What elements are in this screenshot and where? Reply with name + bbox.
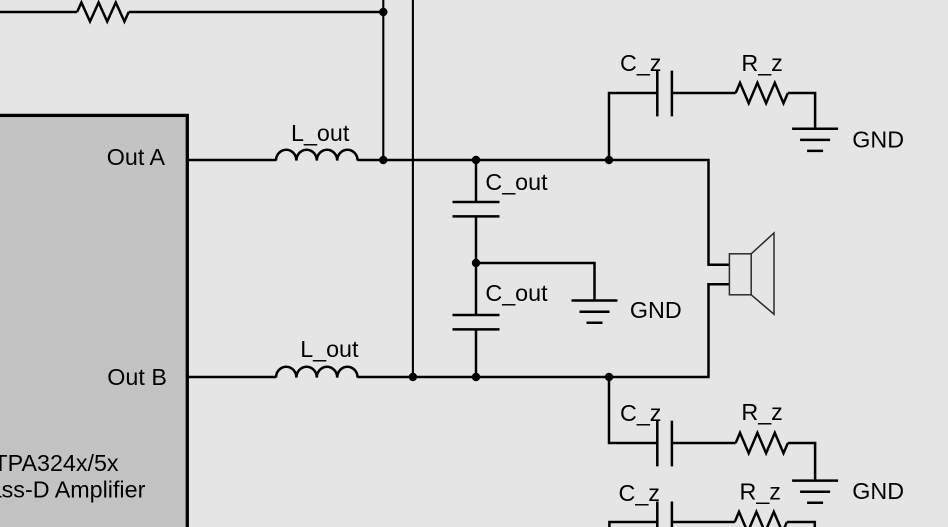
svg-text:Class-D Amplifier: Class-D Amplifier xyxy=(0,477,146,503)
svg-text:C_out: C_out xyxy=(485,169,548,195)
junction node: Out A / Zobel A xyxy=(605,156,613,164)
wire: Zobel B drop from Out B net xyxy=(609,377,656,443)
capacitor C_z (Zobel A) xyxy=(657,71,672,117)
resistor R_z (Zobel C, cropped) xyxy=(735,512,787,527)
svg-text:L_out: L_out xyxy=(300,336,359,362)
wire: top net to junction xyxy=(129,11,384,14)
resistor R_z (Zobel A) xyxy=(736,83,788,103)
junction node: C_out midpoint xyxy=(472,259,480,267)
junction node: Out A / C_out xyxy=(472,156,480,164)
ground (C_out midpoint) xyxy=(572,301,618,323)
wire: R_z to ground (Zobel A) xyxy=(788,93,815,129)
capacitor C_out (lower) xyxy=(453,315,500,329)
svg-text:R_z: R_z xyxy=(741,50,782,76)
svg-text:GND: GND xyxy=(852,127,904,153)
wire: vertical drop from top node to Out A net xyxy=(382,0,384,160)
svg-text:R_z: R_z xyxy=(740,479,781,505)
wire: Zobel C feed stub (second channel, cropped) xyxy=(609,522,656,527)
svg-text:C_z: C_z xyxy=(620,50,661,76)
wire: R_z to ground (Zobel C, cropped) xyxy=(787,522,815,527)
ground (Zobel B) xyxy=(792,481,838,503)
speaker LS1 xyxy=(729,233,774,314)
wire: C_z to R_z (Zobel B) xyxy=(672,442,736,445)
wire: midpoint node to C_out lower xyxy=(475,263,478,315)
svg-text:GND: GND xyxy=(852,478,904,504)
inductor L_out (channel A) xyxy=(276,150,358,161)
capacitor C_out (upper) xyxy=(453,202,500,216)
svg-text:GND: GND xyxy=(630,297,682,323)
capacitor C_z (Zobel C, cropped) xyxy=(657,502,672,527)
junction node: Out B / C_out xyxy=(472,373,480,381)
junction node: Out B / Zobel B xyxy=(605,373,613,381)
inductor L_out (channel B) xyxy=(276,367,358,378)
wire: between C_out upper and midpoint node xyxy=(475,216,478,263)
svg-text:C_out: C_out xyxy=(485,280,548,306)
wire: R_z to ground (Zobel B) xyxy=(788,443,815,481)
wire: Out A net to speaker top terminal xyxy=(358,160,730,265)
svg-text:Out B: Out B xyxy=(107,364,167,390)
svg-text:L_out: L_out xyxy=(291,120,350,146)
ground (Zobel A) xyxy=(792,129,838,151)
wire: top feedback net left segment xyxy=(0,11,77,14)
wire: C_z to R_z (Zobel C) xyxy=(672,521,735,524)
wire: vertical feed line to Out B net xyxy=(412,0,414,377)
wire: Out A from amplifier to inductor xyxy=(189,159,276,162)
junction node: top net xyxy=(379,8,387,16)
svg-text:TPA324x/5x: TPA324x/5x xyxy=(0,450,119,476)
capacitor C_z (Zobel B) xyxy=(657,421,672,467)
svg-text:Out A: Out A xyxy=(107,144,166,170)
wire: C_out branch upper lead xyxy=(475,160,478,202)
wire: Out B net to speaker bottom terminal xyxy=(358,284,730,377)
resistor R_fb xyxy=(77,3,129,22)
amplifier U1 TPA324x/5x box xyxy=(0,115,187,527)
resistor R_z (Zobel B) xyxy=(736,433,788,453)
wire: Zobel A riser from Out A net xyxy=(609,93,656,160)
svg-text:C_z: C_z xyxy=(619,480,660,506)
wire: midpoint node to ground symbol xyxy=(476,263,595,301)
junction node: Out A / vertical drop xyxy=(379,156,387,164)
wire: Out B from amplifier to inductor xyxy=(189,376,276,379)
svg-text:R_z: R_z xyxy=(741,399,782,425)
svg-text:C_z: C_z xyxy=(620,400,661,426)
wire: C_out lower lead to Out B net xyxy=(475,329,478,377)
junction node: Out B / vertical feed xyxy=(409,373,417,381)
wire: C_z to R_z (Zobel A) xyxy=(672,92,736,95)
